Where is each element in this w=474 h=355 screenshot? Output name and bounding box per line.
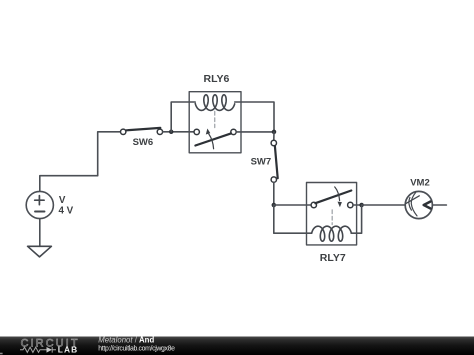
logo lead mark bottom-left [0, 353, 3, 355]
svg-text:RLY6: RLY6 [204, 73, 230, 85]
ground [28, 246, 52, 257]
wire source top to SW6 [40, 132, 121, 192]
svg-text:VM2: VM2 [410, 178, 430, 189]
wire RLY7 switch out to node D [353, 204, 362, 206]
wire node D to VM2 [362, 204, 406, 206]
switch SW6 [121, 128, 163, 135]
node A junction [169, 130, 174, 135]
logo resistor [20, 347, 44, 352]
wire node A up to coil [171, 102, 189, 132]
wire node D down to coil right [357, 205, 362, 233]
wire RLY6 switch out to node B [236, 131, 274, 133]
svg-text:LAB: LAB [58, 345, 79, 355]
svg-text:4 V: 4 V [59, 205, 74, 216]
wire node C to RLY7 coil [274, 205, 307, 233]
svg-text:SW6: SW6 [133, 137, 154, 148]
node C junction [272, 203, 277, 208]
logo diode [47, 347, 53, 353]
svg-text:RLY7: RLY7 [320, 252, 346, 264]
wire SW7 to node C [273, 182, 275, 205]
wire source bottom to ground [39, 219, 41, 247]
voltmeter VM2 [405, 191, 432, 218]
node D junction [359, 203, 364, 208]
node B junction [272, 130, 277, 135]
wire SW6 to RLY6 [163, 131, 194, 133]
svg-text:Metalonot / And: Metalonot / And [98, 335, 154, 344]
wire VM2 right stub [433, 204, 447, 206]
svg-text:V: V [59, 195, 66, 206]
svg-text:SW7: SW7 [251, 156, 272, 167]
switch SW7 [271, 140, 278, 182]
wire node B to SW7 [273, 132, 275, 140]
relay RLY7 [307, 183, 357, 245]
wire node C to RLY7 switch [274, 204, 311, 206]
wire coil right to node B [241, 102, 274, 132]
relay RLY6 [189, 92, 241, 153]
svg-text:http://circuitlab.com/cjwgx8e: http://circuitlab.com/cjwgx8e [98, 346, 175, 353]
voltage source V1 [26, 191, 53, 218]
